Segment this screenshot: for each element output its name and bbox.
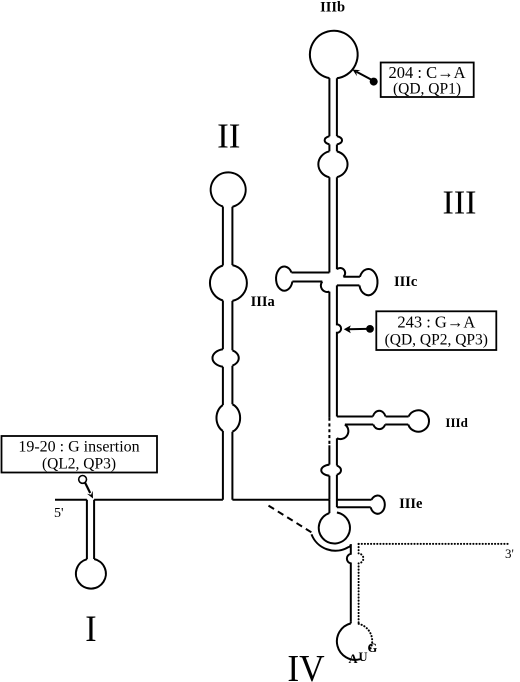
svg-text:5': 5' (54, 506, 64, 521)
wire IIIc-right top line (343, 276, 360, 278)
stem IIIb (329, 78, 337, 136)
svg-text:3': 3' (505, 546, 514, 561)
svg-text:III: III (443, 185, 477, 222)
stem III left line dashed segment (328, 418, 330, 446)
svg-text:IV: IV (287, 647, 325, 682)
loop IIIc-left blob (276, 267, 292, 291)
bulge II-1 IIIa (210, 265, 247, 301)
stem I (87, 500, 94, 559)
svg-text:(QD, QP2, QP3): (QD, QP2, QP3) (385, 332, 488, 349)
wire IIIc-right bottom line (337, 284, 360, 286)
junction IIIe top line (337, 499, 372, 501)
stem IV left wall (347, 544, 351, 621)
loop IIIb (310, 31, 358, 79)
svg-text:(QL2, QP3): (QL2, QP3) (42, 456, 116, 473)
loop below junction (319, 513, 350, 544)
stem III left line solid (328, 292, 330, 418)
stem III left line solid lower (328, 445, 330, 464)
dotted stem IV right wall (359, 544, 364, 624)
bulge II-2 (212, 349, 238, 367)
loop IIIc-right (359, 269, 377, 295)
channel below IIIe junction (328, 500, 330, 513)
wire baseline mid (232, 499, 329, 501)
svg-text:243 : G→A: 243 : G→A (397, 313, 475, 332)
junction IIIc: left branch top line (292, 272, 330, 274)
stem II segment (223, 366, 233, 405)
stem II segment (223, 301, 233, 351)
bump above right branch (337, 268, 345, 277)
svg-text:IIIc: IIIc (394, 274, 418, 290)
svg-text:19-20 : G insertion: 19-20 : G insertion (18, 439, 139, 456)
stem III upper (329, 177, 337, 272)
svg-text:IIIe: IIIe (399, 496, 423, 512)
loop IV solid arc (337, 623, 360, 659)
svg-text:G: G (368, 641, 378, 655)
neck (329, 144, 337, 151)
curl below IIId (337, 425, 348, 440)
annotation box 243 (376, 311, 496, 350)
bulge III lower (321, 465, 341, 476)
wire baseline left (94, 499, 223, 501)
svg-text:204 : C→A: 204 : C→A (388, 63, 465, 82)
arrow 204 (353, 70, 378, 86)
stem II upper segment (223, 207, 233, 266)
junction IIId: top line segments (337, 416, 409, 418)
stem III right line with 243 bump (337, 285, 341, 416)
dotted 3' horizontal (359, 543, 510, 545)
loop IIId (408, 410, 429, 431)
svg-text:II: II (217, 116, 240, 155)
arc hook under loop (312, 534, 351, 550)
arrow 243 (344, 325, 374, 333)
svg-text:IIIb: IIIb (320, 0, 345, 16)
wire IIIc-left bottom line (292, 281, 322, 283)
annotation box 19-20 (2, 436, 158, 473)
svg-text:I: I (85, 608, 96, 650)
stem II lower segment (223, 431, 233, 500)
loop I (76, 559, 106, 589)
bump below left branch (321, 282, 330, 292)
svg-text:IIIa: IIIa (251, 294, 276, 310)
loop II (211, 172, 246, 206)
svg-text:IIId: IIId (445, 415, 468, 430)
dashed diagonal (269, 506, 314, 534)
svg-text:A: A (349, 652, 358, 666)
bulge IIIb small (325, 136, 342, 144)
arrow 19-20 with open circle (79, 476, 93, 499)
wire IIId bottom line (345, 424, 408, 426)
bulge IIIb round (318, 151, 347, 177)
svg-text:(QD, QP1): (QD, QP1) (393, 81, 461, 98)
stem IV left wall join (350, 621, 352, 623)
loop IIIe (371, 496, 385, 514)
stem III right line lower (336, 438, 338, 465)
wire 5' single strand (55, 499, 87, 501)
bulge II-3 (216, 404, 240, 431)
annotation box 204 (381, 63, 474, 98)
dotted loop IV arc (359, 624, 373, 649)
wire IIIe bottom line (337, 506, 371, 508)
svg-text:U: U (359, 650, 368, 664)
bulge IIId (373, 411, 386, 429)
stem III to baseline (329, 475, 337, 508)
